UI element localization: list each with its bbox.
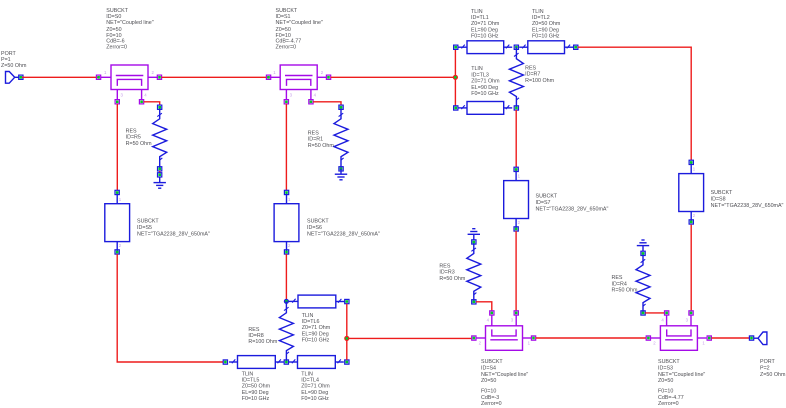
R3 label: [439, 263, 466, 281]
resistor R3: [467, 240, 481, 304]
S0 pin numbers: [104, 70, 155, 97]
R7 label: [525, 65, 555, 83]
tlin TL6: [289, 295, 349, 308]
svg-text:EL=90 Deg: EL=90 Deg: [302, 331, 329, 337]
coupled line S3: [646, 311, 711, 351]
svg-text:NET="TGA2238_28V_650mA": NET="TGA2238_28V_650mA": [307, 231, 380, 237]
svg-text:ID=TL3: ID=TL3: [471, 72, 489, 78]
resistor R8: [279, 301, 293, 362]
resistor R1: [334, 105, 348, 171]
resistor R5: [153, 105, 167, 171]
svg-text:TLIN: TLIN: [471, 9, 483, 15]
svg-text:F0=10: F0=10: [658, 389, 673, 395]
wire TL3 junction to S7 pin1: [515, 110, 517, 167]
wire combiner output vertical: [346, 304, 348, 360]
port P2: [749, 332, 767, 345]
wire S0 pin4 to R5: [144, 102, 160, 105]
svg-text:ID=TL4: ID=TL4: [301, 378, 319, 384]
coupled line S0: [96, 65, 161, 104]
svg-text:TLIN: TLIN: [471, 66, 483, 72]
ground below R5: [154, 173, 166, 189]
svg-text:ID=TL1: ID=TL1: [471, 15, 489, 21]
svg-text:ID=S6: ID=S6: [307, 225, 322, 231]
port P1: [6, 72, 24, 84]
ground above R4: [637, 240, 649, 251]
svg-text:EL=90 Deg: EL=90 Deg: [471, 85, 498, 91]
TL5 label: [242, 371, 271, 402]
TL3 label: [471, 66, 500, 97]
svg-text:NET="TGA2238_28V_650mA": NET="TGA2238_28V_650mA": [536, 206, 609, 212]
svg-text:EL=90 Deg: EL=90 Deg: [532, 27, 559, 33]
svg-text:SUBCKT: SUBCKT: [536, 193, 558, 199]
wire R4 to S3 pin4: [645, 312, 664, 314]
svg-text:TLIN: TLIN: [302, 313, 314, 319]
tlin TL3: [454, 102, 513, 115]
svg-text:Zerror=0: Zerror=0: [658, 401, 679, 407]
wire S0 pin3 to S5 pin1: [116, 104, 118, 191]
node TL1-TL2-R7 junction: [514, 45, 518, 49]
TL4 label: [301, 371, 330, 402]
svg-text:F0=10 GHz: F0=10 GHz: [301, 396, 329, 402]
R5 label: [126, 128, 153, 146]
coupled line S4 label: [481, 359, 528, 407]
svg-text:ID=R7: ID=R7: [525, 72, 540, 78]
tlin TL4: [289, 356, 349, 369]
svg-text:ID=R5: ID=R5: [126, 135, 141, 141]
svg-text:Z0=71 Ohm: Z0=71 Ohm: [301, 384, 330, 390]
svg-text:ID=S8: ID=S8: [711, 196, 726, 202]
svg-text:ID=R8: ID=R8: [248, 333, 263, 339]
svg-text:TLIN: TLIN: [532, 9, 544, 15]
svg-text:NET="TGA2238_28V_650mA": NET="TGA2238_28V_650mA": [711, 203, 784, 209]
node TL3-R7 junction: [514, 106, 518, 110]
S7 label: [536, 193, 609, 212]
coupled line S0 label: [106, 8, 153, 50]
wire port1 to S0 pin1: [22, 76, 99, 78]
subckt S6 amplifier: [274, 190, 299, 254]
ground above R3: [468, 229, 480, 240]
svg-text:Z0=50 Ohm: Z0=50 Ohm: [242, 384, 271, 390]
S3 pin numbers: [653, 318, 705, 346]
svg-text:NET="TGA2238_28V_650mA": NET="TGA2238_28V_650mA": [137, 231, 210, 237]
svg-text:F0=10 GHz: F0=10 GHz: [302, 338, 330, 344]
coupled line S1: [266, 65, 330, 104]
tlin TL1: [454, 41, 513, 54]
svg-text:F0=10 GHz: F0=10 GHz: [532, 34, 560, 40]
wire R3 to S4 pin4: [476, 302, 492, 311]
svg-text:NET="Coupled line": NET="Coupled line": [276, 20, 323, 26]
S8 label: [711, 190, 784, 209]
node divider input: [453, 75, 457, 79]
svg-text:F0=10 GHz: F0=10 GHz: [242, 396, 270, 402]
TL6 label: [302, 313, 331, 344]
wire S4 pin1 to S3 pin2: [536, 337, 647, 339]
wire TL2 to S8 pin1: [578, 47, 691, 160]
S1 pin numbers: [273, 70, 324, 97]
svg-text:SUBCKT: SUBCKT: [137, 218, 159, 224]
tlin TL5: [223, 356, 284, 369]
port P1 label: [1, 51, 27, 69]
svg-text:SUBCKT: SUBCKT: [307, 218, 329, 224]
svg-text:Z=50 Ohm: Z=50 Ohm: [1, 63, 27, 69]
svg-text:SUBCKT: SUBCKT: [481, 359, 503, 365]
coupled line S3 label: [658, 359, 705, 407]
svg-text:R=50 Ohm: R=50 Ohm: [308, 143, 335, 149]
svg-text:F0=10 GHz: F0=10 GHz: [471, 91, 499, 97]
svg-text:R=100 Ohm: R=100 Ohm: [525, 78, 555, 84]
svg-text:F0=10: F0=10: [481, 389, 496, 395]
S6 label: [307, 218, 380, 237]
wire combiner output to S4 pin2: [349, 337, 472, 339]
svg-text:NET="Coupled line": NET="Coupled line": [481, 372, 528, 378]
wire R5 to ground: [159, 171, 161, 173]
svg-text:ID=S7: ID=S7: [536, 200, 551, 206]
svg-text:EL=90 Deg: EL=90 Deg: [242, 390, 269, 396]
svg-text:ID=R4: ID=R4: [612, 281, 627, 287]
TL1 label: [471, 9, 500, 40]
S4 pin numbers: [479, 318, 531, 346]
resistor R4: [636, 251, 650, 315]
svg-text:ID=S3: ID=S3: [658, 366, 673, 372]
node combiner output: [345, 336, 349, 340]
svg-text:ID=S5: ID=S5: [137, 225, 152, 231]
svg-text:Z0=71 Ohm: Z0=71 Ohm: [471, 79, 500, 85]
svg-text:ID=TL2: ID=TL2: [532, 15, 550, 21]
svg-text:ID=TL6: ID=TL6: [302, 319, 320, 325]
node combiner B: [284, 360, 288, 364]
svg-text:NET="Coupled line": NET="Coupled line": [106, 20, 153, 26]
wire S8 pin2 to S3 pin3: [690, 225, 692, 311]
wire S7 pin2 to S4 pin3: [515, 231, 517, 311]
resistor R7: [509, 47, 523, 108]
svg-text:TLIN: TLIN: [242, 371, 254, 377]
R8 label: [248, 327, 278, 345]
svg-text:Z0=50 Ohm: Z0=50 Ohm: [532, 21, 561, 27]
wire S1 pin3 to S6 pin1: [285, 104, 287, 191]
R1 label: [308, 131, 335, 149]
port P2 label: [760, 359, 786, 378]
wire S5 pin2 to TL5: [117, 254, 223, 362]
svg-text:SUBCKT: SUBCKT: [711, 190, 733, 196]
svg-text:R=50 Ohm: R=50 Ohm: [126, 141, 153, 147]
wire S6 pin2 to combiner node A: [285, 254, 287, 299]
svg-text:CdB=-3: CdB=-3: [481, 395, 499, 401]
svg-text:CdB=-4.77: CdB=-4.77: [658, 395, 684, 401]
svg-text:Z0=71 Ohm: Z0=71 Ohm: [302, 325, 331, 331]
svg-text:F0=10 GHz: F0=10 GHz: [471, 34, 499, 40]
svg-text:ID=R3: ID=R3: [439, 270, 454, 276]
svg-text:TLIN: TLIN: [301, 371, 313, 377]
svg-text:Z=50 Ohm: Z=50 Ohm: [760, 372, 786, 378]
wire S0 pin2 to S1 pin1: [162, 76, 269, 78]
subckt S8 amplifier: [679, 160, 704, 224]
svg-text:ID=TL5: ID=TL5: [242, 378, 260, 384]
wire S1 pin4 to R1: [313, 102, 341, 105]
svg-text:RES: RES: [439, 263, 450, 269]
subckt S5 amplifier: [105, 190, 130, 254]
svg-text:RES: RES: [308, 131, 319, 137]
wire S3 pin1 to port2: [712, 337, 750, 339]
svg-text:EL=90 Deg: EL=90 Deg: [301, 390, 328, 396]
coupled line S1 label: [276, 8, 323, 50]
wire S1 pin2 to divider input: [331, 76, 454, 78]
svg-text:RES: RES: [248, 327, 259, 333]
svg-text:RES: RES: [612, 275, 623, 281]
svg-text:Zerror=0: Zerror=0: [106, 45, 127, 51]
svg-text:RES: RES: [525, 65, 536, 71]
svg-text:Zerror=0: Zerror=0: [481, 401, 502, 407]
svg-text:Z0=50: Z0=50: [658, 378, 673, 384]
svg-text:R=50 Ohm: R=50 Ohm: [439, 276, 466, 282]
svg-text:P=2: P=2: [760, 366, 770, 372]
svg-text:Z0=71 Ohm: Z0=71 Ohm: [471, 21, 500, 27]
subckt S7 amplifier: [504, 167, 529, 231]
svg-text:R=100 Ohm: R=100 Ohm: [248, 339, 278, 345]
svg-text:RES: RES: [126, 128, 137, 134]
coupled line S4: [472, 311, 536, 351]
node combiner A: [284, 299, 288, 303]
svg-text:PORT: PORT: [760, 359, 775, 365]
svg-text:NET="Coupled line": NET="Coupled line": [658, 372, 705, 378]
svg-text:EL=90 Deg: EL=90 Deg: [471, 27, 498, 33]
svg-text:ID=R1: ID=R1: [308, 137, 323, 143]
svg-text:Z0=50: Z0=50: [481, 378, 496, 384]
svg-text:R=50 Ohm: R=50 Ohm: [612, 288, 639, 294]
R4 label: [612, 275, 639, 293]
svg-text:SUBCKT: SUBCKT: [658, 359, 680, 365]
S5 label: [137, 218, 210, 237]
TL2 label: [532, 9, 561, 40]
tlin TL2: [519, 41, 578, 54]
wire divider input vertical: [454, 49, 456, 105]
ground below R1: [335, 169, 347, 180]
svg-text:Zerror=0: Zerror=0: [276, 45, 297, 51]
svg-text:ID=S4: ID=S4: [481, 366, 496, 372]
